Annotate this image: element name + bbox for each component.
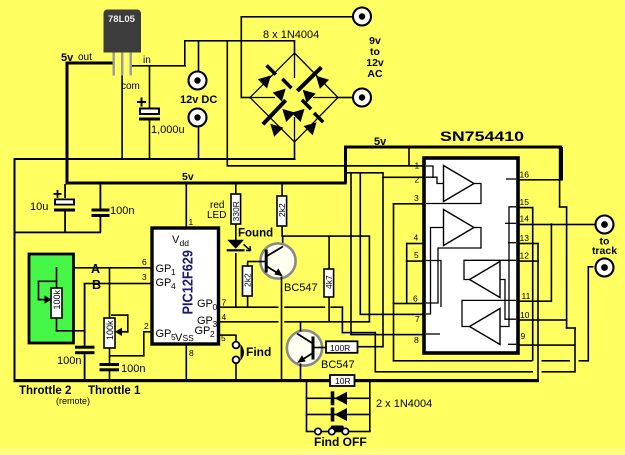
wire GP3 line — [219, 321, 371, 323]
svg-text:5v: 5v — [374, 136, 387, 148]
driver U1 SN754410 box — [424, 158, 518, 353]
wire raw DC top bus — [184, 40, 295, 42]
internal wire pin10 to A3 input — [500, 280, 516, 320]
svg-text:7: 7 — [222, 298, 227, 308]
wire pin3 stub — [393, 203, 424, 205]
wire Q1 collector node line — [281, 235, 370, 237]
wire 12v DC branch vertical top — [198, 40, 200, 72]
label Vdd — [172, 234, 189, 248]
wire Q1 base line — [247, 261, 265, 263]
resistor R3 2k2 base — [243, 262, 253, 307]
wire AC top horizontal — [241, 16, 354, 18]
resistor R5 100R — [326, 341, 358, 353]
svg-text:2 x 1N4004: 2 x 1N4004 — [376, 398, 432, 410]
wire Q2 emitter down — [300, 364, 302, 380]
wire pin4-5 gnd vertical — [406, 243, 408, 304]
wire pin13 stub — [518, 243, 539, 245]
throttle 2 green box — [29, 254, 74, 343]
wire pin15 stub — [518, 207, 534, 209]
diode D5-D6 shared bar — [263, 100, 286, 124]
wire AC left vertical — [241, 16, 243, 98]
capacitor C2 10u lead bottom — [64, 212, 66, 233]
LED D9 — [227, 240, 251, 252]
svg-text:100n: 100n — [121, 363, 145, 375]
diode D4 — [298, 85, 316, 103]
svg-text:AC: AC — [367, 68, 383, 80]
wire GP2 line — [219, 334, 237, 336]
wire PIC pin1 Vdd vertical — [186, 184, 188, 228]
svg-text:8 x 1N4004: 8 x 1N4004 — [263, 29, 319, 41]
internal wire A3 output to pin12 — [464, 260, 516, 279]
svg-text:2: 2 — [415, 175, 420, 185]
buffer A3 — [470, 262, 501, 298]
potentiometer VR2 bottom lead — [56, 318, 85, 332]
label GP0 — [197, 298, 218, 312]
svg-text:2: 2 — [210, 329, 215, 339]
svg-text:5: 5 — [414, 250, 419, 260]
capacitor C3 100n lead bottom — [100, 216, 102, 233]
internal wire A2 output to pin6 — [426, 228, 481, 304]
buffer A2 — [444, 210, 475, 246]
capacitor C1 1,000u lead top — [149, 66, 151, 108]
buffer A4 — [470, 309, 501, 345]
wire pin9 line — [518, 344, 576, 346]
svg-text:dd: dd — [180, 238, 190, 248]
microcontroller U3 PIC12F629 box — [152, 228, 219, 344]
label GP4 — [156, 277, 177, 291]
wire 0v branch caps — [14, 232, 102, 234]
svg-text:7: 7 — [415, 314, 420, 324]
regulator U2 78L05 body — [104, 10, 142, 53]
svg-text:BC547: BC547 — [321, 359, 355, 371]
terminal 12v DC plus — [189, 72, 207, 90]
wire B drop vertical — [84, 283, 86, 346]
svg-text:4k7: 4k7 — [324, 275, 334, 289]
internal wire pin8 stub — [426, 333, 440, 335]
wire 0v top line — [14, 158, 296, 160]
label GP2 — [195, 325, 216, 339]
svg-text:5v: 5v — [182, 171, 194, 183]
svg-text:100k: 100k — [52, 289, 62, 309]
wire in horizontal — [130, 65, 186, 67]
wire 5v thick top rail — [344, 146, 562, 149]
svg-text:78L05: 78L05 — [108, 14, 136, 25]
wire com vertical — [121, 70, 123, 159]
svg-text:PIC12F629: PIC12F629 — [180, 250, 197, 315]
wire diode rail 2 — [306, 414, 371, 416]
wire GP5 left — [110, 355, 145, 357]
switch Find button — [233, 335, 244, 380]
wire pin10 stub — [518, 319, 567, 321]
diode D1 — [258, 71, 276, 89]
internal wire pin7 to A2 input — [426, 228, 444, 315]
wire in vertical rise — [184, 40, 186, 66]
svg-text:com: com — [121, 81, 140, 92]
wire track bottom vertical — [588, 267, 590, 362]
capacitor C1 1,000u plates — [139, 108, 160, 121]
potentiometer VR1 top lead — [109, 268, 111, 318]
wire 5v out thick vertical — [66, 62, 69, 184]
svg-text:8: 8 — [414, 335, 419, 345]
wire pin2 stub — [382, 177, 424, 179]
diode D11 1N4004 — [331, 408, 347, 422]
wire pin11-14 vertical — [551, 223, 553, 302]
internal wire pin14 stub — [505, 222, 516, 224]
wire 5v chain vertical b — [566, 206, 568, 329]
svg-text:out: out — [78, 52, 92, 63]
wire find-off right vertical — [369, 382, 371, 432]
svg-text:15: 15 — [520, 197, 530, 207]
diode D3-D4 shared bar — [297, 67, 321, 91]
svg-text:2k2: 2k2 — [243, 273, 253, 287]
internal wire pin1 stub — [426, 166, 433, 178]
wire A line — [56, 267, 153, 269]
svg-text:GP: GP — [156, 263, 172, 275]
internal wire pin9 stub — [508, 343, 516, 345]
wire Q1 collector to GP3 vertical — [369, 236, 371, 323]
capacitor C2 10u plus — [54, 190, 62, 198]
svg-text:100R: 100R — [330, 343, 350, 353]
wire H2 find horizontal — [375, 371, 576, 373]
wire B line — [84, 283, 152, 285]
wire find-off left vertical — [306, 382, 308, 432]
terminal AC top — [353, 8, 371, 26]
svg-text:track: track — [592, 245, 617, 257]
wire pin3 vertical — [393, 203, 395, 362]
potentiometer VR1 bottom lead — [109, 348, 111, 364]
diode D8 — [304, 118, 322, 136]
svg-text:1,000u: 1,000u — [151, 124, 185, 136]
svg-text:A: A — [91, 262, 100, 276]
internal wire pin16 stub — [506, 178, 516, 180]
wire 5v chain jog b — [566, 327, 576, 329]
wire raw 12v right branch vertical — [227, 40, 229, 166]
wire 5v sub rail horizontal — [345, 172, 384, 174]
svg-text:4: 4 — [171, 281, 176, 291]
wire 100R right — [358, 346, 384, 348]
svg-text:6: 6 — [142, 257, 147, 267]
svg-text:1: 1 — [171, 267, 176, 277]
svg-text:330R: 330R — [231, 201, 241, 221]
svg-text:100n: 100n — [110, 205, 134, 217]
svg-text:4: 4 — [414, 233, 419, 243]
svg-text:5: 5 — [171, 332, 176, 342]
svg-text:0: 0 — [213, 302, 218, 312]
svg-text:12: 12 — [520, 251, 530, 261]
potentiometer VR2 wiper loop — [38, 281, 58, 304]
svg-text:14: 14 — [520, 214, 530, 224]
svg-text:5v: 5v — [61, 52, 74, 64]
wire bridge top corner vertical — [294, 40, 296, 54]
wire pin5 stub — [406, 260, 424, 262]
svg-text:2: 2 — [144, 321, 149, 331]
wire Q1 emitter down — [281, 277, 283, 380]
capacitor C1 1,000u lead bottom — [149, 121, 151, 159]
wire GP5 down — [143, 331, 145, 356]
capacitor C4 100n plates — [75, 346, 95, 355]
wire pin1 line — [228, 165, 424, 167]
wire pin8 stub — [350, 334, 424, 336]
wire raw 12v to SN754410 horizontal — [227, 165, 425, 167]
wire bridge bottom corner vertical — [294, 141, 296, 159]
potentiometer VR2 100k body — [51, 288, 62, 318]
wire pin15 vertical — [532, 207, 534, 361]
svg-text:in: in — [143, 55, 151, 66]
svg-text:16: 16 — [520, 170, 530, 180]
wire Q2 collector up — [300, 322, 302, 332]
wire pin7 line — [360, 314, 425, 316]
wire Q2 base line — [314, 347, 326, 349]
wire diode rail 1 — [306, 398, 371, 400]
wire pin11 stub — [518, 300, 552, 302]
potentiometer VR2 top lead — [56, 267, 58, 288]
wire pin4 stub — [406, 243, 424, 245]
svg-text:6: 6 — [413, 294, 418, 304]
label GP5 — [156, 328, 177, 342]
wire 5v chain jog a — [559, 206, 568, 208]
resistor R1 330R — [231, 184, 241, 240]
svg-text:3: 3 — [213, 319, 218, 329]
wire out horizontal — [66, 62, 115, 65]
capacitor C3 100n plates — [92, 209, 110, 218]
switch Find OFF — [306, 426, 371, 435]
internal wire pin2 to A1 input — [426, 177, 444, 183]
svg-text:4: 4 — [222, 312, 227, 322]
svg-text:GP: GP — [197, 298, 213, 310]
wire H1 track horizontal — [393, 360, 589, 362]
terminal track top — [596, 216, 614, 234]
internal wire pin13 stub — [508, 242, 516, 244]
svg-text:8: 8 — [189, 348, 194, 358]
wire PIC pin8 Vss vertical — [186, 344, 188, 379]
svg-text:GP: GP — [156, 328, 172, 340]
svg-text:10: 10 — [520, 310, 530, 320]
terminal 12v DC minus — [189, 109, 207, 127]
transistor Q1 BC547 — [260, 243, 295, 278]
wire pin7 5v vertical — [360, 172, 362, 315]
svg-text:5: 5 — [221, 333, 226, 343]
diode D5 — [278, 104, 296, 122]
wire LED cathode down — [235, 253, 237, 307]
label red LED — [207, 200, 226, 221]
wire pin6 stub — [393, 303, 424, 305]
diode D6 — [266, 119, 284, 137]
wire pin12 stub — [518, 260, 539, 262]
capacitor C3 100n lead top — [100, 184, 102, 210]
wire bridge right corner to AC terminal — [338, 97, 353, 99]
svg-text:B: B — [92, 278, 101, 292]
label 9v to 12v AC — [366, 35, 384, 80]
svg-text:GP: GP — [156, 277, 172, 289]
transistor Q2 BC547 mirrored — [287, 330, 322, 365]
svg-text:100n: 100n — [57, 355, 81, 367]
wire pin14 line to track — [518, 224, 596, 226]
diode D10 1N4004 — [331, 391, 347, 405]
svg-text:10R: 10R — [335, 376, 351, 386]
label Vss — [175, 332, 194, 344]
wire 5v main bus thick — [66, 182, 347, 185]
capacitor C2 10u lead — [64, 184, 66, 198]
label to track — [592, 236, 617, 257]
label GP3 — [197, 315, 218, 329]
wire GP0 line — [219, 306, 344, 308]
potentiometer VR1 100k body — [104, 318, 115, 348]
diode D7 — [291, 104, 309, 122]
svg-text:GP: GP — [195, 325, 211, 337]
svg-text:11: 11 — [522, 291, 531, 301]
svg-text:(remote): (remote) — [56, 396, 90, 406]
internal wire A4 output to pin11 — [462, 300, 516, 326]
capacitor C1 1,000u plus — [137, 98, 146, 107]
wire 5v chain vertical a — [559, 147, 561, 207]
svg-text:2k2: 2k2 — [277, 203, 287, 217]
resistor R2 2k2 pullup — [277, 184, 287, 236]
capacitor C5 100n lead bottom — [109, 371, 111, 379]
diode D3 — [311, 71, 329, 89]
svg-text:12v DC: 12v DC — [180, 94, 217, 106]
wire 0v bottom bus thick left part — [14, 379, 331, 382]
buffer A1 — [444, 166, 475, 202]
svg-text:Find OFF: Find OFF — [314, 435, 367, 449]
wire AC to bridge left corner — [241, 97, 251, 99]
terminal track bottom — [596, 259, 614, 277]
resistor R4 4k7 — [324, 236, 334, 322]
svg-text:13: 13 — [520, 233, 530, 243]
svg-text:Find: Find — [246, 345, 271, 359]
diode D2 — [273, 84, 291, 102]
wire pin16 line — [518, 179, 562, 181]
svg-text:Throttle 1: Throttle 1 — [88, 385, 141, 397]
wire pin13 gnd vertical — [537, 243, 539, 381]
terminal AC bottom — [353, 89, 371, 107]
wire pin8 5v vertical — [350, 172, 352, 335]
wire 5v thick corner vertical — [344, 146, 347, 184]
internal wire A1 output to pin3 — [426, 184, 481, 204]
svg-text:3: 3 — [414, 193, 419, 203]
label GP1 — [156, 263, 177, 277]
resistor R6 10R inline — [330, 375, 355, 386]
capacitor C5 100n plates — [100, 363, 120, 371]
svg-text:BC547: BC547 — [284, 282, 318, 294]
wire 5v thick right vertical — [560, 147, 563, 181]
internal wire pin5 stub — [426, 261, 441, 308]
bridge rectifier diamond — [250, 53, 338, 142]
wire pin2 vertical — [382, 172, 384, 347]
svg-text:LED: LED — [207, 210, 226, 221]
wire left edge vertical — [14, 158, 16, 381]
svg-text:3: 3 — [142, 272, 147, 282]
svg-text:10u: 10u — [30, 201, 48, 213]
svg-text:SN754410: SN754410 — [440, 129, 524, 144]
wire track bottom horizontal — [588, 266, 594, 268]
svg-text:9: 9 — [521, 331, 526, 341]
capacitor C4 100n lead bottom — [84, 354, 86, 379]
svg-text:1: 1 — [189, 217, 194, 227]
wire GP5 stub — [143, 331, 152, 333]
capacitor C2 10u plates — [54, 199, 75, 212]
wire GP0 staircase — [342, 306, 377, 371]
svg-text:SS: SS — [183, 333, 195, 343]
potentiometer VR1 wiper loop — [111, 314, 129, 336]
wire Q1 collector stub — [282, 236, 284, 245]
wire pin1 to 5v vertical — [408, 147, 410, 166]
wire 0v bottom bus thick right part — [355, 379, 540, 382]
svg-text:Found: Found — [238, 228, 273, 240]
wire 12v DC minus vertical — [198, 127, 200, 160]
wire 5v chain vertical c — [574, 327, 576, 372]
svg-text:100k: 100k — [105, 320, 115, 340]
regulator U2 legs — [113, 53, 132, 76]
internal wire pin15 to A4 input — [500, 207, 516, 327]
